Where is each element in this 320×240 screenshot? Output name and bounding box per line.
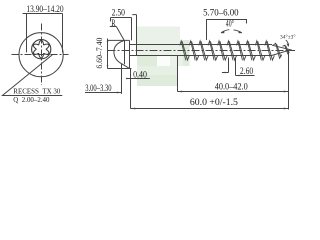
svg-text:40°: 40° — [226, 19, 234, 29]
svg-text:R: R — [111, 18, 115, 28]
svg-text:5.70–6.00: 5.70–6.00 — [203, 8, 239, 18]
svg-text:34°±3°: 34°±3° — [280, 36, 296, 41]
svg-text:40.0–42.0: 40.0–42.0 — [215, 81, 248, 91]
svg-text:Q 2.00–2.40: Q 2.00–2.40 — [13, 96, 50, 104]
svg-text:3.00–3.30: 3.00–3.30 — [85, 83, 112, 93]
svg-text:6.60–7.40: 6.60–7.40 — [95, 38, 104, 69]
svg-text:60.0 +0/-1.5: 60.0 +0/-1.5 — [190, 97, 239, 107]
svg-text:13.90–14.20: 13.90–14.20 — [26, 4, 64, 14]
svg-text:2.60: 2.60 — [240, 66, 254, 76]
svg-text:RECESS TX 30: RECESS TX 30 — [13, 87, 61, 95]
svg-text:2.50: 2.50 — [112, 8, 126, 18]
svg-text:0.40: 0.40 — [133, 70, 147, 80]
